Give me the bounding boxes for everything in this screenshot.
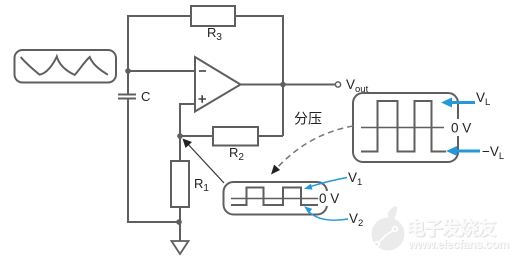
wire: left vertical wire (below capacitor): [128, 99, 179, 222]
wire: top feedback wire: [128, 15, 283, 17]
0V reference line: [361, 127, 444, 129]
watermark text 电子发烧友: [406, 217, 497, 241]
svg-text:0 V: 0 V: [451, 121, 471, 136]
square waveform: [361, 101, 446, 152]
wire: output wire: [240, 84, 335, 86]
watermark logo: [372, 206, 405, 250]
dashed arrow from 分压 to divided waveform: [271, 126, 353, 175]
capacitor C: [118, 89, 150, 104]
waveform box: triangle/sawtooth output: [15, 50, 117, 83]
resistor R1: [171, 161, 209, 207]
label V1 with pointer: [304, 170, 362, 190]
svg-text:www.elecfans.com: www.elecfans.com: [407, 237, 509, 251]
junction dot at inverting input: [125, 68, 131, 74]
waveform box: square wave output (Vout): [353, 93, 472, 162]
small square waveform: [231, 188, 318, 206]
svg-text:C: C: [141, 89, 150, 104]
svg-text:0 V: 0 V: [319, 191, 339, 206]
svg-text:分压: 分压: [294, 111, 322, 127]
resistor R2: [213, 127, 258, 163]
wire: R2 right wire: [258, 135, 283, 137]
arrow -VL: [446, 144, 504, 162]
junction dot at bottom wire: [176, 219, 182, 225]
waveform box: divided square wave: [224, 182, 340, 215]
white backing for 0 V label: [318, 191, 338, 206]
white backing for 0 V label: [449, 119, 472, 136]
wire: left vertical wire (top part, above capacitor): [127, 15, 129, 94]
op-amp U1: [195, 57, 241, 112]
wire: R1 top wire: [179, 136, 181, 161]
node Vout terminal circle: [335, 82, 340, 87]
wire: R1 bottom wire to ground: [179, 207, 181, 241]
0V reference line: [231, 198, 318, 200]
arrow from divided waveform box to R1 node: [183, 139, 225, 184]
label V2 with pointer: [304, 206, 363, 229]
arrow VL: [441, 90, 490, 108]
wire: right vertical wire from R3 to R2: [282, 15, 284, 136]
resistor R3: [191, 6, 235, 43]
ground: [172, 241, 189, 254]
watermark text www.elecfans.com: [407, 237, 510, 252]
wire: R2 left wire: [180, 135, 213, 137]
wire: inverting input wire: [128, 70, 195, 72]
wire: non-inverting input wire: [180, 104, 195, 136]
junction dot at R1/R2 node: [177, 133, 183, 139]
junction dot at output: [280, 82, 286, 88]
